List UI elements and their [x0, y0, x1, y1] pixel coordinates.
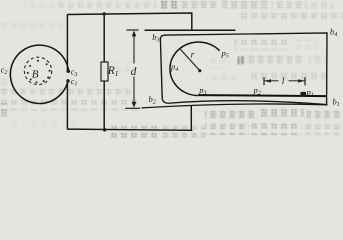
wire resistor branch bottom [103, 81, 105, 130]
loop arc [170, 42, 220, 96]
bleed text top dark blob [158, 1, 179, 10]
bottom rail b2-b1 [142, 104, 328, 108]
l dim line left [265, 80, 279, 82]
field region dashed circle [24, 57, 51, 84]
junction dot top [103, 12, 106, 15]
l arrowhead left [264, 79, 271, 82]
l dim line right [289, 80, 305, 82]
generator ring [10, 45, 68, 103]
wire top: corner to stub [67, 13, 191, 30]
wire resistor branch top [103, 14, 105, 62]
radius line [180, 49, 200, 71]
junction dot bottom [103, 128, 107, 132]
svg-text:d: d [131, 66, 137, 78]
bleed text right row C [248, 70, 326, 81]
svg-text:l: l [282, 77, 285, 87]
bleed text right row A [234, 40, 318, 51]
bleed text bottom dark mid [110, 125, 205, 137]
node c3 dot [67, 69, 71, 73]
block square p1 [301, 92, 307, 97]
center dot [198, 69, 201, 72]
bleed text top-right row [181, 1, 333, 10]
svg-text:B: B [32, 69, 39, 81]
node c1 dot [66, 79, 70, 83]
resistor R1 [101, 62, 108, 81]
bleed text right row B [237, 56, 326, 67]
d bottom tick [125, 107, 140, 109]
d arrow line lower [133, 77, 135, 105]
bleed text mid-left rows [0, 62, 138, 110]
bleed text top-right row 2 [238, 10, 343, 19]
d arrowhead up [132, 31, 137, 37]
d arrowhead down [132, 102, 137, 108]
bleed text bottom right row2 [205, 123, 342, 136]
bleed text bottom row right [205, 107, 341, 119]
wire bottom stub to rail [190, 106, 192, 131]
l right tick [304, 77, 306, 85]
bleed text left faint row y22 [0, 21, 64, 29]
d top tick [126, 29, 138, 31]
bleed text inside box faint fragments [206, 59, 238, 85]
d arrow line upper [133, 32, 135, 64]
bleed blob left edge dark [0, 103, 11, 118]
bleed text bottom row left [10, 120, 80, 130]
bleed blob left edge faint [0, 76, 13, 92]
field dots [27, 60, 51, 84]
wire bottom [67, 129, 192, 130]
bleed text top-left faint [25, 2, 156, 10]
wire left vertical [66, 14, 68, 70]
l left tick [263, 77, 265, 85]
svg-text:r: r [191, 50, 195, 60]
l arrowhead right [298, 79, 305, 82]
paper background [0, 0, 343, 138]
